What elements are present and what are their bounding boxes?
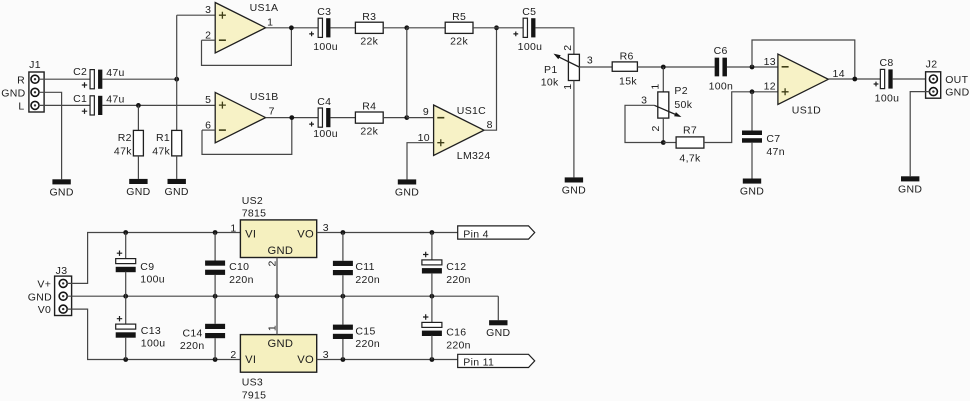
svg-text:V0: V0 — [38, 304, 51, 316]
svg-text:GND: GND — [562, 184, 586, 196]
svg-text:R6: R6 — [620, 51, 634, 63]
wire US1A feedback — [202, 28, 292, 66]
wire US1C pin10 to ground — [407, 143, 434, 180]
wire P1 wiper to R6 — [579, 66, 612, 68]
op-amp US1B — [215, 92, 265, 142]
resistor R7 — [676, 137, 704, 148]
svg-text:7915: 7915 — [242, 390, 267, 401]
svg-text:VI: VI — [245, 228, 256, 240]
svg-text:US1C: US1C — [457, 105, 486, 117]
svg-text:15k: 15k — [619, 76, 637, 88]
wire J1-GND down — [39, 92, 62, 179]
svg-text:1: 1 — [562, 84, 574, 90]
svg-text:R3: R3 — [362, 11, 376, 23]
svg-text:3: 3 — [205, 4, 211, 16]
svg-text:1: 1 — [230, 222, 236, 234]
svg-text:C4: C4 — [317, 96, 331, 108]
wire J1-R to C2 — [39, 78, 91, 80]
connector J3 — [55, 276, 72, 315]
wire to US1C pin9 — [407, 117, 434, 119]
wire US1A pin2 — [202, 39, 216, 41]
svg-text:J2: J2 — [926, 59, 938, 71]
wire J1-L to C1 — [39, 104, 91, 106]
svg-text:220n: 220n — [180, 340, 205, 352]
wire P2 wiper loop — [625, 105, 663, 142]
capacitor C13 — [125, 296, 127, 324]
svg-text:GND: GND — [267, 338, 293, 350]
svg-text:P2: P2 — [674, 85, 687, 97]
wire J3 V+ to rail — [67, 233, 241, 284]
svg-text:US1B: US1B — [250, 91, 279, 103]
svg-text:GND: GND — [898, 183, 922, 195]
ground P1 — [565, 177, 583, 182]
node C14 bottom — [213, 357, 218, 362]
wire C4 to R4 — [330, 117, 355, 119]
svg-text:V+: V+ — [37, 279, 51, 291]
svg-text:GND: GND — [126, 186, 150, 198]
svg-text:R5: R5 — [452, 11, 466, 23]
svg-text:C1: C1 — [73, 93, 87, 105]
node C9 top — [123, 230, 128, 235]
svg-text:100n: 100n — [709, 80, 734, 92]
wire C14 to rail — [214, 338, 216, 359]
resistor R2 — [137, 105, 139, 130]
svg-text:R: R — [17, 74, 25, 86]
svg-text:2: 2 — [230, 349, 236, 361]
svg-text:Pin 11: Pin 11 — [463, 357, 494, 369]
wire P2 terminal1 — [662, 67, 664, 92]
capacitor C8 — [880, 69, 884, 88]
wire C10 to rail — [214, 275, 216, 296]
svg-text:14: 14 — [833, 68, 845, 80]
node C10 top — [213, 230, 218, 235]
node C16 bottom — [430, 357, 435, 362]
svg-text:OUT: OUT — [945, 74, 968, 86]
svg-text:GND: GND — [49, 186, 73, 198]
svg-text:100u: 100u — [875, 93, 900, 105]
capacitor C16 — [431, 296, 433, 322]
svg-text:L: L — [18, 101, 24, 113]
wire US1B output — [266, 117, 319, 119]
node P2 top — [661, 65, 666, 70]
svg-text:C5: C5 — [522, 6, 536, 18]
svg-text:220n: 220n — [446, 274, 471, 286]
svg-text:22k: 22k — [450, 36, 468, 48]
svg-text:1: 1 — [650, 83, 662, 89]
node regulator ground — [275, 294, 280, 299]
node C9 bottom — [123, 294, 128, 299]
node US1B output — [289, 115, 294, 120]
resistor R4 — [355, 112, 383, 123]
svg-text:47u: 47u — [106, 94, 124, 106]
svg-text:220n: 220n — [355, 338, 380, 350]
wire C6 to US1D pin13 — [727, 66, 778, 68]
svg-text:US1A: US1A — [250, 2, 279, 14]
wire R3 to node — [383, 27, 407, 29]
svg-text:LM324: LM324 — [457, 150, 491, 162]
ground R1 — [168, 179, 186, 184]
svg-text:100u: 100u — [141, 338, 166, 350]
node P2 bottom — [661, 140, 666, 145]
wire J3 GND rail — [67, 295, 499, 297]
node US1D output — [852, 77, 857, 82]
wire J3 V0 to rail — [67, 309, 241, 359]
capacitor C1 — [90, 96, 94, 115]
wire ground drop — [497, 296, 499, 320]
svg-text:220n: 220n — [355, 274, 380, 286]
svg-text:C9: C9 — [140, 261, 154, 273]
wire to US1A pin3 — [177, 14, 216, 16]
svg-text:8: 8 — [487, 119, 493, 131]
svg-text:4,7k: 4,7k — [679, 153, 701, 165]
wire C3 to R3 — [330, 27, 355, 29]
svg-text:47k: 47k — [114, 146, 132, 158]
wire C8 to J2 — [893, 78, 930, 80]
flag Pin 4 — [458, 226, 535, 239]
svg-text:2: 2 — [562, 45, 574, 51]
svg-text:1: 1 — [267, 16, 273, 28]
svg-text:22k: 22k — [360, 36, 378, 48]
svg-text:7: 7 — [269, 106, 275, 118]
node R5/C5 — [494, 25, 499, 30]
svg-text:GND: GND — [945, 86, 969, 98]
capacitor C9 — [125, 233, 127, 259]
wire US1D output — [828, 78, 880, 80]
regulator US2 — [240, 220, 316, 258]
svg-text:Pin 4: Pin 4 — [463, 228, 489, 240]
connector J2 — [926, 72, 941, 98]
node C11 top — [341, 230, 346, 235]
wire J2 GND — [910, 92, 930, 177]
node C13 bottom — [123, 357, 128, 362]
svg-text:US2: US2 — [242, 195, 263, 207]
capacitor C6 — [715, 58, 720, 77]
svg-text:C15: C15 — [355, 325, 375, 337]
wire node to R7 — [663, 142, 676, 144]
svg-text:22k: 22k — [360, 126, 378, 138]
svg-text:C14: C14 — [182, 327, 202, 339]
capacitor C14 — [214, 296, 216, 324]
capacitor C5 — [523, 18, 527, 37]
svg-text:R4: R4 — [362, 101, 376, 113]
wire C1 to US1B pin5 — [102, 104, 215, 106]
wire R5 to node — [473, 27, 497, 29]
capacitor C7 — [751, 92, 753, 131]
node US1A output — [289, 25, 294, 30]
svg-text:P1: P1 — [544, 64, 557, 76]
ground C7 — [743, 179, 761, 184]
wire R7 to US1D pin12 — [704, 92, 778, 143]
svg-text:220n: 220n — [229, 274, 254, 286]
svg-text:GND: GND — [395, 186, 419, 198]
capacitor C4 — [318, 108, 322, 127]
svg-text:GND: GND — [740, 186, 764, 198]
resistor R5 — [445, 22, 473, 33]
wire US1B feedback — [202, 118, 292, 155]
node C11 bottom — [341, 294, 346, 299]
ground J2 — [901, 176, 919, 181]
svg-text:US3: US3 — [242, 377, 263, 389]
svg-text:47n: 47n — [766, 146, 784, 158]
wire US3 output rail — [317, 359, 458, 361]
wire C16 to rail — [431, 335, 433, 359]
svg-text:C12: C12 — [446, 261, 466, 273]
potentiometer P2 — [658, 92, 669, 118]
svg-text:GND: GND — [1, 88, 25, 100]
wire P1 to ground — [573, 81, 575, 178]
wire US2 GND pin — [276, 258, 278, 297]
wire US1D feedback — [752, 40, 855, 79]
svg-text:J1: J1 — [29, 59, 41, 71]
node C10 bottom — [213, 294, 218, 299]
wire C7 to ground — [751, 143, 753, 179]
svg-text:C10: C10 — [229, 261, 249, 273]
svg-text:50k: 50k — [674, 99, 692, 111]
wire R6 to C6 — [637, 66, 714, 68]
wire R2 to ground — [137, 156, 139, 179]
node R-channel — [174, 77, 179, 82]
capacitor C11 — [342, 233, 344, 261]
capacitor C2 — [90, 70, 94, 89]
regulator US3 — [240, 335, 316, 373]
svg-text:GND: GND — [28, 291, 52, 303]
flag Pin 11 — [458, 354, 535, 367]
node US1D pin13 — [750, 65, 755, 70]
svg-text:C7: C7 — [766, 133, 780, 145]
svg-text:C6: C6 — [714, 45, 728, 57]
capacitor C12 — [431, 233, 433, 261]
wire C5 to P1 — [535, 28, 573, 55]
node C12 top — [430, 230, 435, 235]
wire node to R5 — [407, 27, 445, 29]
wire US1C output — [484, 28, 497, 130]
svg-text:220n: 220n — [446, 339, 471, 351]
wire R1 to ground — [176, 156, 178, 179]
svg-text:100u: 100u — [140, 274, 165, 286]
resistor R3 — [355, 22, 383, 33]
svg-text:2: 2 — [650, 125, 662, 131]
node L-channel — [136, 103, 141, 108]
op-amp US1D — [778, 54, 828, 104]
svg-text:VI: VI — [245, 354, 256, 366]
wire C2 to node — [102, 78, 176, 80]
wire US2 output rail — [317, 232, 458, 234]
svg-text:10k: 10k — [541, 77, 559, 89]
node summing — [404, 115, 409, 120]
wire node to node vertical — [406, 28, 408, 118]
ground R2 — [129, 179, 147, 184]
wire C13 to rail — [125, 337, 127, 359]
capacitor C15 — [342, 296, 344, 324]
svg-text:C3: C3 — [317, 6, 331, 18]
wire US1A output — [266, 27, 319, 29]
potentiometer P1 — [568, 54, 579, 80]
resistor R1 — [176, 15, 178, 130]
wire R4 to node — [383, 117, 407, 119]
svg-text:US1D: US1D — [792, 105, 821, 117]
svg-text:C13: C13 — [141, 325, 161, 337]
wire P2 terminal2 — [662, 118, 664, 142]
svg-text:GND: GND — [165, 186, 189, 198]
resistor R6 — [612, 62, 637, 71]
wire C9 to rail — [125, 272, 127, 297]
svg-text:VO: VO — [297, 354, 314, 366]
svg-text:VO: VO — [297, 228, 314, 240]
node C12 bottom — [430, 294, 435, 299]
svg-text:12: 12 — [764, 81, 776, 93]
ground bottom — [489, 320, 507, 325]
svg-text:7815: 7815 — [242, 207, 267, 219]
ground US1C — [398, 179, 416, 184]
svg-text:C2: C2 — [73, 66, 87, 78]
svg-text:47u: 47u — [106, 67, 124, 79]
svg-text:5: 5 — [205, 94, 211, 106]
svg-text:R7: R7 — [683, 125, 697, 137]
svg-text:C11: C11 — [355, 261, 374, 273]
svg-text:GND: GND — [267, 245, 293, 257]
capacitor C10 — [214, 233, 216, 261]
wire node to C5 — [497, 27, 524, 29]
svg-text:100u: 100u — [313, 41, 338, 53]
connector J1 — [29, 72, 44, 112]
svg-text:R2: R2 — [118, 132, 132, 144]
svg-text:C8: C8 — [879, 57, 893, 69]
svg-text:100u: 100u — [518, 41, 543, 53]
node C7 top — [750, 89, 755, 94]
wire C11 to rail — [342, 275, 344, 296]
svg-text:J3: J3 — [56, 265, 68, 277]
svg-text:3: 3 — [587, 54, 593, 66]
op-amp US1C — [434, 105, 484, 155]
wire C15 to rail — [342, 339, 344, 360]
wire US3 GND pin — [276, 296, 278, 334]
svg-text:GND: GND — [486, 327, 510, 339]
capacitor C3 — [318, 18, 322, 37]
svg-text:47k: 47k — [152, 146, 170, 158]
svg-text:13: 13 — [764, 56, 776, 68]
node C15 bottom — [341, 357, 346, 362]
op-amp US1A — [215, 3, 265, 53]
svg-text:9: 9 — [423, 106, 429, 118]
wire C12 to rail — [431, 273, 433, 296]
ground J1 — [52, 179, 70, 184]
svg-text:C16: C16 — [446, 327, 466, 339]
svg-text:100u: 100u — [313, 128, 338, 140]
node R3/R5 — [404, 25, 409, 30]
svg-text:3: 3 — [641, 94, 647, 106]
wire US1B pin6 — [202, 129, 215, 131]
svg-text:R1: R1 — [156, 132, 170, 144]
